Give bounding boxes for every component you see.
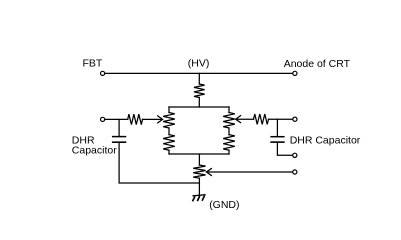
wire left capacitor to ground bus [119,143,199,183]
wire left bleeder top stub [168,107,170,113]
wire left capacitor stub top [118,119,120,136]
capacitor DHR left plate bottom [113,141,126,143]
svg-text:Capacitor: Capacitor [72,145,117,157]
node bottom wiper terminal [293,170,297,174]
resistor right bleeder lower [223,135,235,151]
wiper arrowhead bottom [206,168,212,176]
wire left bleeder bottom stub [168,150,170,154]
svg-text:(HV): (HV) [188,57,210,69]
wiper arrowhead left [157,116,162,124]
svg-text:DHR Capacitor: DHR Capacitor [290,135,361,147]
wire bleeder bottom to GND resistor [198,154,200,165]
node right wiper terminal [293,117,297,121]
svg-text:(GND): (GND) [209,199,239,211]
wiper arrowhead right [236,115,242,123]
wire right capacitor to terminal [277,143,292,156]
resistor GND adjust [193,165,205,178]
wire right resistor to terminal [269,118,293,120]
capacitor DHR left plate top [113,136,126,138]
wire left bleeder link [168,128,170,135]
resistor left wiper series [128,114,143,124]
wire left terminal to resistor [105,118,128,120]
resistor left bleeder lower [163,135,175,151]
wire bleeder top bus [169,106,229,108]
wire HV rail to resistor [198,73,200,84]
wire resistor to bleeder top [198,98,200,108]
capacitor DHR right plate top [271,136,284,138]
wire right arrow lead [237,118,254,120]
resistor left bleeder upper [163,113,175,129]
capacitor DHR right plate bottom [271,141,284,143]
node Anode of CRT terminal [293,71,297,75]
node left wiper terminal [101,117,105,121]
wire right capacitor stub top [276,119,278,136]
wire GND stem [198,178,200,195]
resistor HV series [194,84,205,98]
node FBT terminal [101,71,105,75]
node right capacitor terminal [293,153,297,157]
wire bottom wiper to terminal [207,171,292,173]
wire left wiper arrow lead [143,118,162,120]
svg-text:FBT: FBT [83,57,103,69]
wire right bleeder bottom stub [228,150,230,154]
wire bleeder bottom bus [169,153,229,155]
resistor right wiper series [254,114,269,124]
wire right bleeder link [228,128,230,135]
resistor right bleeder upper [223,113,235,129]
wire HV top rail [105,72,292,74]
wire right bleeder top stub [228,107,230,113]
svg-text:Anode of CRT: Anode of CRT [284,58,351,70]
ground [192,195,205,202]
